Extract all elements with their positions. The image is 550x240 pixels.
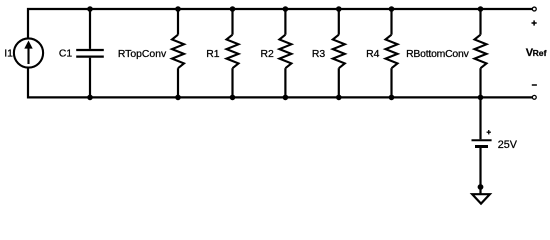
terminal + bbox=[532, 7, 536, 11]
junction C1 bottom bbox=[87, 95, 93, 101]
voltage source 25V battery bbox=[472, 140, 492, 146]
junction C1 top bbox=[87, 6, 93, 12]
capacitor C1 bbox=[76, 50, 104, 57]
svg-text:R4: R4 bbox=[366, 49, 380, 60]
wire R1 branch bottom bbox=[231, 68, 233, 97]
resistor R4 bbox=[386, 35, 398, 68]
junction R3 bottom bbox=[336, 95, 342, 101]
junction R2 top bbox=[283, 6, 289, 12]
wire RBottomConv branch top bbox=[479, 9, 481, 35]
wire C1 branch bottom bbox=[89, 58, 91, 98]
wire R3 branch bottom bbox=[338, 68, 340, 97]
wire battery branch bbox=[479, 97, 481, 139]
ground bbox=[472, 187, 490, 204]
resistor R2 bbox=[279, 35, 291, 68]
svg-text:R1: R1 bbox=[206, 49, 220, 60]
wire RBottomConv branch bottom bbox=[479, 68, 481, 97]
terminal - bbox=[532, 95, 536, 99]
svg-text:C1: C1 bbox=[59, 49, 73, 60]
wire R4 branch bottom bbox=[390, 68, 392, 97]
wire RTopConv branch top bbox=[177, 9, 179, 35]
junction R4 bottom bbox=[389, 95, 395, 101]
wire top rail bbox=[28, 9, 532, 39]
junction R1 bottom bbox=[230, 95, 236, 101]
junction R2 bottom bbox=[283, 95, 289, 101]
svg-text:RTopConv: RTopConv bbox=[118, 49, 167, 60]
resistor RBottomConv bbox=[475, 35, 487, 68]
wire R3 branch top bbox=[338, 9, 340, 35]
svg-text:I1: I1 bbox=[4, 49, 13, 60]
junction RBottomConv bottom bbox=[478, 95, 484, 101]
svg-text:RBottomConv: RBottomConv bbox=[406, 49, 469, 60]
junction ground bbox=[478, 184, 484, 190]
node VRef bbox=[526, 47, 547, 59]
wire R2 branch bottom bbox=[284, 68, 286, 97]
svg-text:R2: R2 bbox=[261, 49, 275, 60]
junction R4 top bbox=[389, 6, 395, 12]
wire C1 branch top bbox=[89, 9, 91, 49]
svg-text:R3: R3 bbox=[312, 49, 326, 60]
wire bottom rail bbox=[28, 68, 532, 98]
wire battery to ground bbox=[479, 148, 481, 187]
junction RTopConv top bbox=[175, 6, 181, 12]
label + (battery) bbox=[487, 130, 491, 134]
junction RBottomConv top bbox=[478, 6, 484, 12]
wire R4 branch top bbox=[390, 9, 392, 35]
junction R1 top bbox=[230, 6, 236, 12]
junction RTopConv bottom bbox=[175, 95, 181, 101]
resistor R3 bbox=[333, 35, 345, 68]
svg-text:25V: 25V bbox=[498, 139, 518, 151]
label - (bottom terminal) bbox=[532, 84, 537, 86]
svg-text:Ref: Ref bbox=[533, 48, 547, 58]
junction R3 top bbox=[336, 6, 342, 12]
resistor R1 bbox=[227, 35, 239, 68]
wire R1 branch top bbox=[231, 9, 233, 35]
wire R2 branch top bbox=[284, 9, 286, 35]
wire RTopConv branch bottom bbox=[177, 68, 179, 97]
current source I1 bbox=[14, 38, 43, 67]
label + (top terminal) bbox=[532, 20, 537, 25]
resistor RTopConv bbox=[172, 35, 184, 68]
